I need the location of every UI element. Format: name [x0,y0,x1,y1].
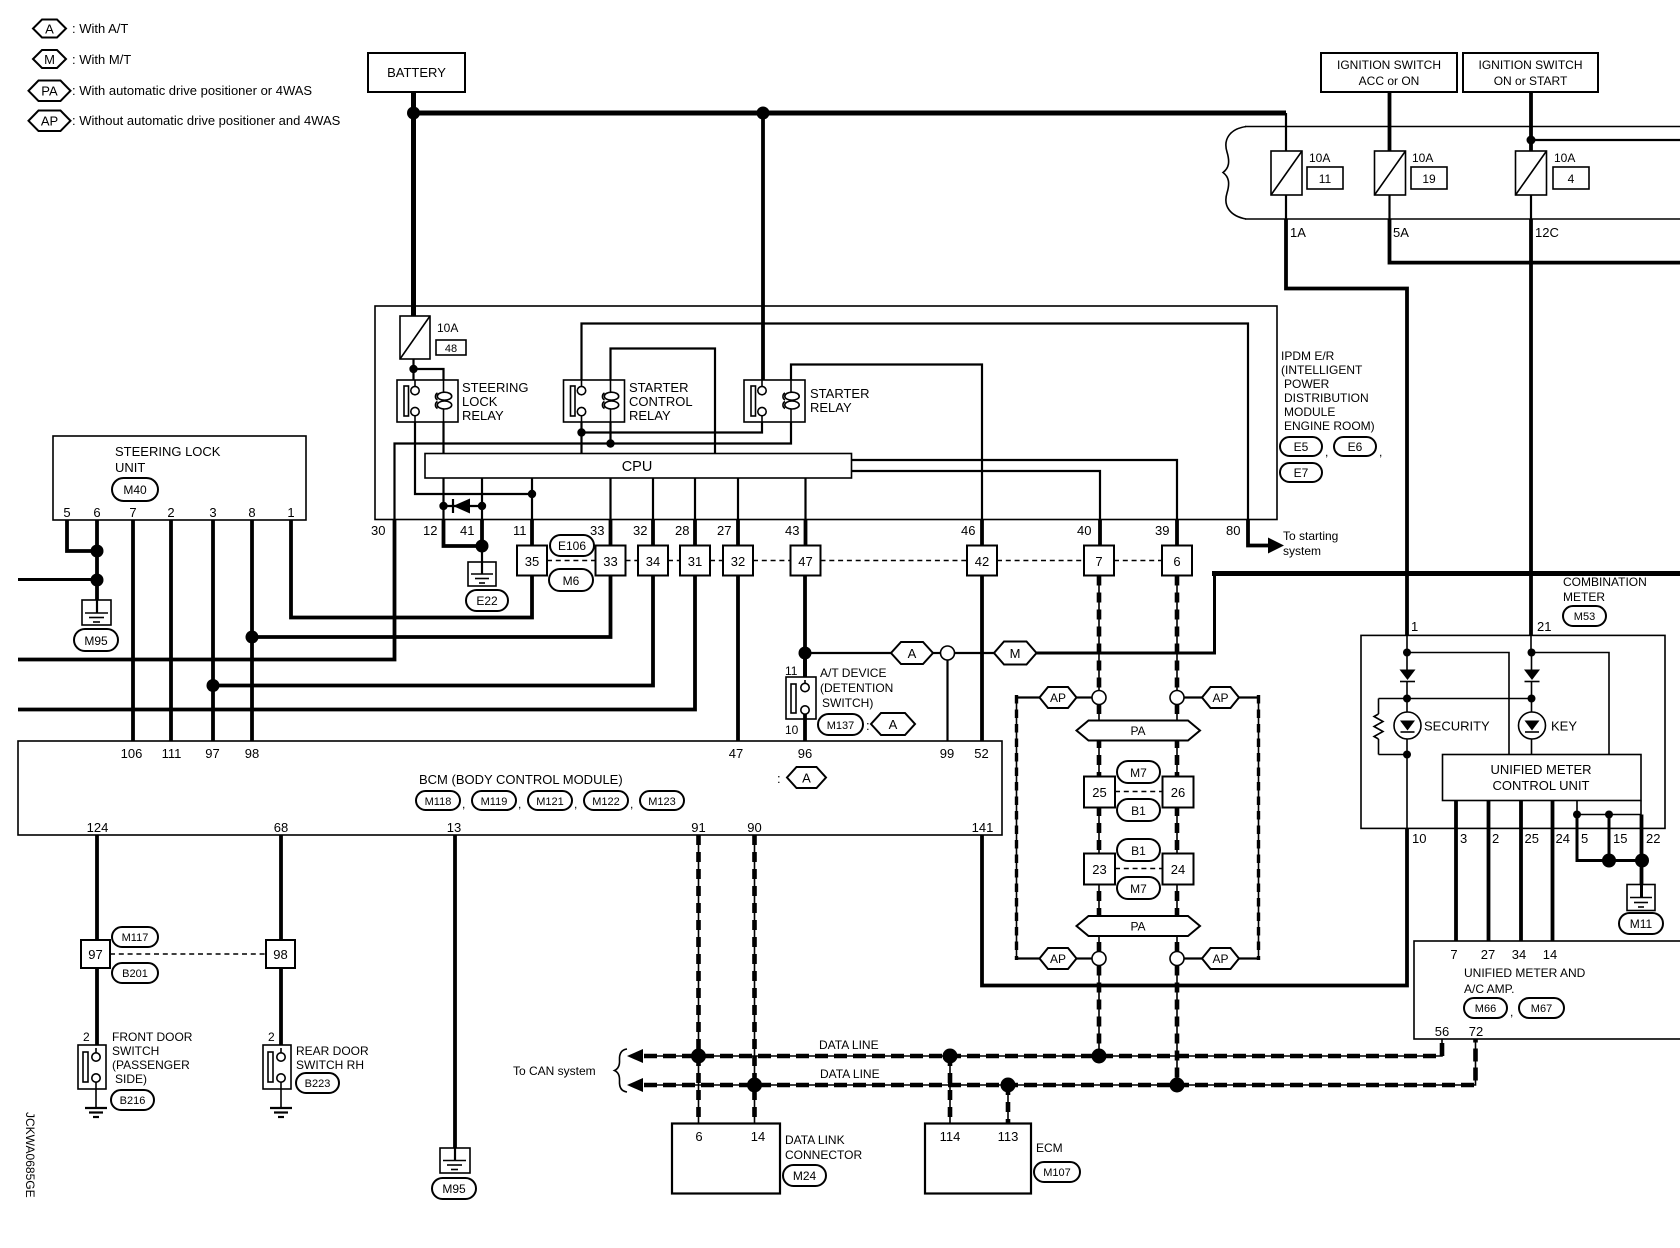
svg-text:124: 124 [87,820,109,835]
svg-text:34: 34 [646,554,660,569]
connector M67 [1519,998,1564,1018]
wire BCM 68 drop [279,835,283,940]
svg-text:3: 3 [209,505,216,520]
svg-text:IPDM E/R: IPDM E/R [1281,349,1335,363]
hexagon AP bottom right [1184,948,1259,969]
svg-text:46: 46 [961,523,975,538]
svg-text:CPU: CPU [622,459,653,475]
switch rear door RH [263,1045,291,1089]
svg-text:A: A [889,717,898,732]
svg-text:E7: E7 [1294,466,1309,480]
node pin 41 ground junction [476,540,489,553]
wire CPU pin 27 [737,478,739,520]
hexagon A at BCM pin 96 [777,767,826,788]
wire dashed between 25 26 [1115,791,1163,793]
svg-text:98: 98 [273,947,287,962]
wire dashed 26 branch [1176,704,1178,952]
svg-text:10A: 10A [437,321,458,335]
node ground link 5 [1573,811,1581,819]
svg-text:,: , [630,797,633,811]
wire pin 40 stub [1098,520,1102,546]
svg-text:ON or START: ON or START [1494,74,1568,88]
connector M6 [549,569,593,591]
connector box 31 [680,546,710,576]
svg-text:A/C AMP.: A/C AMP. [1464,982,1514,996]
svg-text:,: , [1325,445,1328,459]
wire ACC long rail [1212,571,1680,576]
svg-text:SIDE): SIDE) [115,1072,147,1086]
svg-text:,: , [1379,445,1382,459]
svg-text:35: 35 [525,554,539,569]
svg-text:PA: PA [41,84,58,99]
connector box 97 [81,940,110,968]
connector box 42 [967,546,997,576]
svg-text:B223: B223 [305,1078,331,1090]
svg-text:4: 4 [1568,172,1575,186]
svg-text:B201: B201 [122,968,148,980]
svg-text::: : [866,718,870,733]
connector M121 [528,791,577,811]
svg-text:21: 21 [1537,619,1551,634]
wire meter pin 21 feed [1530,635,1532,652]
svg-text:2: 2 [167,505,174,520]
node data1 conn25 [1092,1049,1107,1064]
hexagon AP top left [1017,687,1093,708]
wire SLU pin 3 to BCM 97 [211,520,215,741]
svg-text:10A: 10A [1412,151,1433,165]
node data2 BCM90 [747,1078,762,1093]
svg-text:2: 2 [268,1030,275,1044]
svg-text:M95: M95 [442,1182,466,1196]
wire pin 12 drop [444,520,483,547]
svg-text:10A: 10A [1554,151,1575,165]
wire dashed 25 line to data line 1 [1098,966,1100,1057]
svg-text:47: 47 [729,746,743,761]
svg-text:,: , [1510,1005,1513,1019]
legend hexagon A [33,20,66,38]
fuse block left brace [1223,127,1246,220]
node fuse 48 output junction [409,365,417,373]
connector M117 [112,927,158,947]
svg-text:IGNITION SWITCH: IGNITION SWITCH [1337,58,1441,72]
wire meter pin 2 to amp 27 [1487,801,1491,942]
svg-text:STARTER: STARTER [629,380,688,395]
svg-text:,: , [574,797,577,811]
connector M107 [1034,1162,1080,1182]
svg-text:M137: M137 [827,720,855,732]
node data1 BCM91 [691,1049,706,1064]
svg-text:25: 25 [1525,831,1539,846]
fuse 4 10A [1516,151,1590,195]
svg-text:1: 1 [1411,619,1418,634]
ground E22 [468,562,496,586]
wire CPU right stub to pin 40 [852,471,1101,520]
svg-text:M24: M24 [793,1169,817,1183]
wire ECM 114 dashed [949,1056,951,1124]
ground B216 bars [85,1108,107,1117]
svg-text:M7: M7 [1130,766,1147,780]
connector E7 [1280,463,1322,482]
svg-text:24: 24 [1171,862,1185,877]
svg-text:10A: 10A [1309,151,1330,165]
wire pin 46 stub [980,520,984,546]
diode D2 security [1400,653,1416,699]
svg-text:ACC or ON: ACC or ON [1359,74,1420,88]
connector M122 [584,791,633,811]
svg-text::: : [777,771,781,786]
connector M95 oval steering [74,629,118,651]
wire 5A rail [1390,219,1680,263]
svg-text:33: 33 [603,554,617,569]
legend hexagon M [33,50,66,68]
hexagon AP bottom left [1017,948,1093,969]
svg-text:: With automatic drive positio: : With automatic drive positioner or 4WA… [72,83,312,98]
svg-text:RELAY: RELAY [629,408,671,423]
wire splice to BCM 99 [946,660,948,741]
wire pin 6 branch to left edge [18,578,97,581]
svg-text:JCKWA0685GE: JCKWA0685GE [23,1112,37,1198]
resistor R1 [1374,699,1407,755]
wire CPU pin 33 [609,478,611,520]
svg-text:M11: M11 [1630,917,1653,931]
svg-text:STEERING LOCK: STEERING LOCK [115,444,221,459]
wire splice to M hex [955,652,995,654]
connector B201 [112,963,158,983]
svg-text:90: 90 [747,820,761,835]
svg-text:PA: PA [1130,724,1145,738]
wire pin 43 stub [804,520,808,546]
connector box 23 [1084,854,1115,885]
wire ON/START branch to right edge [1531,139,1680,141]
connector box 47 [791,546,821,576]
connector E5 [1280,437,1328,459]
wire starter control relay coil top to CPU [611,349,716,454]
svg-text:M7: M7 [1130,882,1147,896]
wire contact link to starter relay contact [582,422,763,433]
svg-text:31: 31 [688,554,702,569]
svg-text:SWITCH RH: SWITCH RH [296,1058,364,1072]
relay starter control relay [564,380,625,422]
svg-text:UNIFIED METER: UNIFIED METER [1490,762,1591,777]
svg-text:IGNITION SWITCH: IGNITION SWITCH [1479,58,1583,72]
svg-text:26: 26 [1171,785,1185,800]
svg-text:7: 7 [129,505,136,520]
legend hexagon AP [29,111,71,132]
svg-text:M119: M119 [481,796,508,808]
svg-text:12C: 12C [1535,225,1559,240]
wire M hex to ACC rail [1037,576,1215,653]
svg-text:30: 30 [371,523,385,538]
svg-text:AP: AP [1050,952,1066,966]
svg-text:11: 11 [1319,172,1332,186]
node ground junction 22 [1635,854,1649,868]
wire rear door to ground [280,1089,282,1108]
svg-text:system: system [1283,544,1321,558]
ground B223 bars [270,1108,292,1117]
ground M11 [1627,885,1655,911]
wire fuse 4 to 12C [1530,195,1532,219]
svg-text:5: 5 [1581,831,1588,846]
svg-text:M107: M107 [1043,1167,1071,1179]
fuse 48 10A [400,316,466,359]
node A/T device junction [799,647,812,660]
wire fuse 48 output [412,359,414,380]
svg-text:SWITCH): SWITCH) [822,696,873,710]
node security resistor junction [1403,695,1411,703]
splice circle [941,646,955,660]
svg-text:24: 24 [1556,831,1570,846]
svg-text:96: 96 [798,746,812,761]
svg-text:E5: E5 [1294,440,1309,454]
svg-text:To CAN system: To CAN system [513,1064,596,1078]
svg-text:ENGINE ROOM): ENGINE ROOM) [1284,419,1375,433]
wire 1A rail [1286,219,1407,635]
wire pin 22 to ground [1640,815,1644,899]
svg-text:11: 11 [513,523,527,538]
svg-text:CONNECTOR: CONNECTOR [785,1148,862,1162]
wire BCM 13 to ground [453,835,457,1148]
wire pin 28 stub [693,520,697,546]
wire starter control relay contact bottom net [580,422,582,454]
svg-text:68: 68 [274,820,288,835]
svg-text:UNIT: UNIT [115,460,145,475]
battery B1 [368,53,465,92]
wire battery bus [414,111,1287,116]
wire CPU pin 41 [481,478,483,520]
wire SLU pin 1 to IPDM 11 line [291,520,532,618]
wire pin 32 stub [651,520,655,546]
svg-text:LOCK: LOCK [462,394,498,409]
svg-text:KEY: KEY [1551,719,1577,734]
svg-text:METER: METER [1563,590,1605,604]
combination meter box [1361,635,1665,828]
wire meter pin 25 to amp 34 [1519,801,1523,942]
wire dashed connector link row [547,560,1162,562]
wire meter pin 3 to amp 7 [1454,801,1458,942]
svg-text:FRONT DOOR: FRONT DOOR [112,1030,193,1044]
wire A/T device to BCM 96 [803,714,807,741]
svg-text:BATTERY: BATTERY [387,65,446,80]
svg-text:47: 47 [798,554,812,569]
svg-text:RELAY: RELAY [810,400,852,415]
svg-text:1: 1 [287,505,294,520]
node data2 conn26 [1170,1078,1185,1093]
svg-text:28: 28 [675,523,689,538]
connector box 33 [596,546,626,576]
svg-text:M67: M67 [1531,1003,1552,1015]
wire SLU pin 5 [67,520,97,551]
svg-text:AP: AP [41,114,58,129]
svg-text:15: 15 [1613,831,1627,846]
svg-text:(INTELLIGENT: (INTELLIGENT [1281,363,1363,377]
svg-text:114: 114 [940,1129,961,1144]
hexagon A at M137 [866,713,915,735]
svg-text:E106: E106 [558,539,586,553]
svg-text:B216: B216 [120,1095,146,1107]
svg-text:32: 32 [731,554,745,569]
wire pin 41 drop to ground [480,520,484,547]
svg-text:,: , [462,797,465,811]
wire IPDM 28 line to left edge [18,576,695,710]
ignition switch ON or START [1463,53,1598,92]
svg-text:111: 111 [162,746,182,761]
wire ground link [1577,814,1641,816]
svg-text:B1: B1 [1131,804,1146,818]
wire dashed 97 to 98 [110,953,266,955]
unified meter and AC amp box [1414,941,1680,1039]
connector M24 [783,1165,826,1186]
wire SLU pin 6 to ground [95,520,99,600]
svg-text:91: 91 [691,820,705,835]
svg-text:25: 25 [1092,785,1106,800]
wire meter pin 1 feed [1406,635,1408,652]
wire steering lock relay coil bottom to CPU [442,422,444,454]
arrow to starting system [1268,538,1284,554]
svg-text:23: 23 [1092,862,1106,877]
connector box 26 [1163,777,1194,808]
wire A branch [805,652,891,654]
node starter control coil return junction [606,439,614,447]
wire fuse 19 to 5A [1388,195,1390,219]
node key junction [1528,695,1536,703]
hexagon A option [891,642,933,664]
svg-text:141: 141 [972,820,994,835]
wire CPU right stub to pin 39 [852,460,1178,520]
wire pin 80 to starting system arrow [1248,520,1268,546]
wire pin 30 drop [18,520,395,660]
connector box 24 [1163,854,1194,885]
wire pin 39 stub [1175,520,1179,546]
wire starter control relay contact top to pin 80 [582,324,1249,520]
svg-text:DISTRIBUTION: DISTRIBUTION [1284,391,1369,405]
svg-text:MODULE: MODULE [1284,405,1335,419]
node pin 3 branch [207,679,220,692]
wire SLU pin 7 to BCM 106 [131,520,135,741]
splice circle AP left bottom [1092,952,1106,966]
node security bottom junction [1403,751,1411,759]
wire pin 30 coil return [395,422,792,520]
svg-text:B1: B1 [1131,844,1146,858]
svg-text:BCM (BODY CONTROL MODULE): BCM (BODY CONTROL MODULE) [419,772,623,787]
wire UMCU pin 22 stub [1640,801,1642,815]
connector M53 [1563,606,1606,626]
wire pin 3 branch to IPDM 32 line [213,576,653,686]
node ground link 15 [1605,811,1613,819]
wire ECM 113 dashed [1007,1085,1009,1124]
steering lock unit M40 [53,436,306,520]
node ground junction 15 [1602,854,1616,868]
fuse block bottom border [1245,218,1680,220]
wire starter relay coil top to pin 46 [791,365,982,520]
node pin 6 branch junction [91,574,104,587]
svg-text:52: 52 [974,746,988,761]
wire starter control coil bottom [609,422,611,444]
svg-text:M118: M118 [425,796,452,808]
wire pin 5 drop [1577,815,1642,861]
diode D3 key [1524,653,1540,699]
wire dashed between 23 24 [1115,868,1163,870]
splice circle AP right bottom [1170,952,1184,966]
connector box 25 [1084,777,1115,808]
svg-text:1A: 1A [1290,225,1306,240]
node starter control contact junction [577,428,585,436]
svg-text:PA: PA [1130,920,1145,934]
LED key lamp [1519,699,1546,755]
svg-text:99: 99 [940,746,954,761]
splice circle AP right top [1170,691,1184,705]
connector M7 top [1117,761,1160,783]
wire 98 to rear door switch [279,968,283,1045]
wire starter relay feed drop [761,113,765,380]
wire A hex to splice [933,652,941,654]
wire CPU pin 11 [531,478,533,520]
svg-text:106: 106 [121,746,143,761]
svg-text:42: 42 [975,554,989,569]
ground M95 steering [82,600,111,625]
svg-text:32: 32 [633,523,647,538]
connector M66 [1464,998,1513,1019]
wire CPU pin 32 [652,478,654,520]
relay steering lock relay [397,380,458,422]
svg-text:6: 6 [1173,554,1180,569]
connector box 7 [1084,546,1114,576]
svg-text:A: A [908,646,917,661]
wire CPU pin 28 [694,478,696,520]
svg-text:M6: M6 [563,574,580,588]
wire connector 6 dashed drop [1176,576,1178,691]
connector box 34 [638,546,668,576]
wire to steering lock relay coil [414,369,444,380]
svg-text:CONTROL UNIT: CONTROL UNIT [1492,778,1589,793]
svg-text:40: 40 [1077,523,1091,538]
fuse 11 10A [1271,151,1343,195]
svg-text:M: M [1010,646,1021,661]
svg-text:M117: M117 [122,932,149,944]
banner PA bottom [1077,916,1201,936]
svg-text:M121: M121 [536,796,564,808]
connector box 6 [1162,546,1192,576]
svg-text:56: 56 [1435,1024,1449,1039]
wire data line 2 [644,1039,1476,1085]
svg-text:M122: M122 [592,796,620,808]
wire BCM 141 to meter pin 10 [982,828,1407,985]
wire AP dashed frame left [1016,695,1018,960]
wire security to meter pin 10 [1406,755,1408,829]
svg-text:97: 97 [205,746,219,761]
BCM box [18,741,1002,835]
svg-text:COMBINATION: COMBINATION [1563,575,1647,589]
wire steering lock relay contact bottom to pin 11 net [415,422,532,494]
svg-text:: With A/T: : With A/T [72,21,128,36]
svg-text:33: 33 [590,523,604,538]
ignition switch ACC or ON [1321,53,1457,92]
diode D1 between pins 12 and 41 [439,499,486,514]
IPDM E/R box [375,306,1277,520]
arrow data line 1 [627,1049,643,1063]
connector B216 [111,1090,154,1110]
wire BCM 124 drop [95,835,99,940]
hexagon M option [994,642,1037,665]
A/T device detention switch M137 [786,653,816,719]
wire pin 33 stub [609,520,613,546]
svg-text:3: 3 [1460,831,1467,846]
wire pin 8 branch to IPDM 33 line [252,576,611,638]
svg-text:E22: E22 [476,594,498,608]
wire pin 15 drop [1608,815,1611,861]
ECM box [925,1124,1031,1194]
connector box 98 [266,940,295,968]
relay starter relay [744,380,805,422]
